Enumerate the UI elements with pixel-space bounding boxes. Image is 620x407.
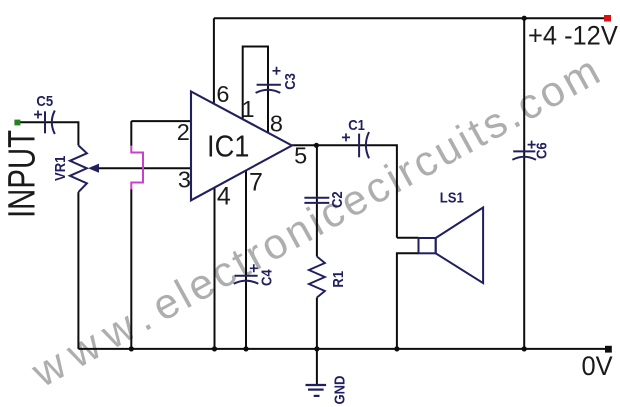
- capacitor C4: [234, 264, 259, 284]
- wire C2 branch down to R1: [316, 145, 318, 256]
- node junction dot speaker: [394, 346, 399, 351]
- wire input through C5 to VR1 top: [20, 122, 78, 145]
- svg-text:3: 3: [178, 167, 191, 193]
- wire wiper to pin3: [94, 167, 191, 169]
- svg-text:C3: C3: [281, 73, 298, 90]
- wire speaker top stub: [397, 237, 419, 239]
- svg-text:GND: GND: [330, 376, 347, 405]
- wire pot branch vertical lower: [130, 189, 132, 349]
- wire pin2 branch vertical upper: [130, 121, 132, 146]
- node 0V terminal black square: [605, 346, 612, 353]
- op-amp IC1 triangle: [191, 92, 292, 201]
- node junction dot ground: [314, 346, 319, 351]
- node input terminal green square: [14, 120, 20, 126]
- svg-text:INPUT: INPUT: [1, 130, 44, 218]
- potentiometer wiper arrow: [88, 164, 99, 173]
- wire VR1 bottom to 0V rail: [77, 192, 79, 349]
- node junction dot right rail bottom: [522, 346, 527, 351]
- resistor R1: [309, 257, 325, 298]
- svg-text:7: 7: [249, 168, 263, 196]
- svg-text:LS1: LS1: [440, 189, 464, 206]
- wire right supply rail: [523, 18, 525, 349]
- svg-text:C4: C4: [258, 269, 275, 286]
- wire pin5 output through C1 to speaker corner: [292, 145, 397, 238]
- svg-text:VR1: VR1: [51, 155, 68, 181]
- node junction dot top rail: [522, 16, 527, 21]
- wire pin6 drop from top rail: [213, 18, 215, 104]
- svg-text:8: 8: [270, 110, 283, 136]
- svg-text:C5: C5: [36, 92, 53, 109]
- node junction dot pin5: [314, 143, 319, 148]
- wire pin2 horizontal: [131, 120, 190, 122]
- svg-text:4: 4: [217, 183, 231, 211]
- capacitor C1: [342, 132, 369, 158]
- svg-text:C6: C6: [533, 142, 550, 159]
- potentiometer pink overlay: [131, 146, 143, 190]
- node junction dot C4: [243, 346, 248, 351]
- node junction dot pot branch: [129, 346, 134, 351]
- capacitor C5: [34, 111, 55, 135]
- ground GND bars: [306, 385, 327, 396]
- capacitor C2: [304, 198, 329, 203]
- svg-text:6: 6: [216, 81, 229, 107]
- svg-text:2: 2: [177, 119, 190, 145]
- svg-text:R1: R1: [329, 271, 346, 288]
- wire speaker bottom stub: [397, 253, 419, 349]
- svg-text:5: 5: [294, 143, 307, 169]
- capacitor C3: [256, 67, 281, 93]
- speaker LS1 cone: [436, 208, 483, 284]
- wire pin1 up over C3 loop to pin8: [243, 47, 268, 134]
- wire rail to ground: [316, 349, 318, 384]
- svg-text:C1: C1: [348, 116, 365, 133]
- svg-text:+4 -12V: +4 -12V: [528, 20, 618, 51]
- capacitor C6: [512, 141, 536, 160]
- wire R1 to rail: [316, 298, 318, 349]
- wire pin7 through C4 to rail: [245, 171, 247, 349]
- wire pin4 to rail: [214, 188, 216, 349]
- node supply terminal red square: [604, 15, 611, 22]
- svg-text:C2: C2: [328, 191, 345, 208]
- svg-text:0V: 0V: [582, 350, 614, 381]
- wire 0V bottom rail: [78, 348, 606, 350]
- potentiometer VR1: [70, 145, 87, 192]
- node junction dot pin4: [212, 346, 217, 351]
- speaker LS1 box: [419, 238, 436, 253]
- svg-text:IC1: IC1: [207, 130, 249, 164]
- svg-text:1: 1: [242, 96, 255, 122]
- wire top rail: [214, 17, 605, 19]
